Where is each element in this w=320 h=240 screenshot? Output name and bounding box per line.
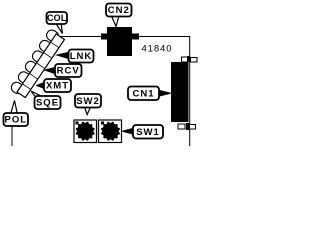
wire: [60, 36, 103, 38]
svg-text:LNK: LNK: [70, 51, 93, 62]
wire: [139, 37, 190, 58]
label LNK: [57, 50, 94, 63]
label XMT: [37, 79, 72, 92]
svg-text:SQE: SQE: [36, 98, 59, 109]
label SW1: [122, 125, 163, 139]
svg-text:41840: 41840: [142, 44, 173, 55]
label POL: [4, 101, 29, 127]
switch SW2: [74, 120, 97, 143]
wire: [11, 126, 13, 146]
wire: [189, 62, 191, 146]
screw post top: [182, 56, 198, 62]
label CN2: [106, 4, 132, 27]
label COL: [47, 12, 68, 34]
label RCV: [45, 64, 82, 77]
svg-text:COL: COL: [47, 13, 67, 23]
screw post bottom: [178, 123, 196, 130]
connector CN1 body: [171, 62, 189, 122]
svg-text:CN1: CN1: [132, 89, 154, 100]
svg-text:XMT: XMT: [46, 81, 69, 92]
LED array: [9, 28, 65, 99]
svg-text:CN2: CN2: [108, 5, 130, 16]
label SW2: [75, 94, 101, 115]
svg-text:POL: POL: [5, 115, 28, 126]
svg-text:SW2: SW2: [76, 96, 100, 107]
label SQE: [31, 91, 61, 109]
svg-text:SW1: SW1: [136, 127, 160, 138]
switch SW1: [99, 120, 122, 143]
IC CN2: [101, 27, 139, 56]
svg-text:RCV: RCV: [57, 66, 80, 77]
label CN1: [128, 87, 171, 101]
